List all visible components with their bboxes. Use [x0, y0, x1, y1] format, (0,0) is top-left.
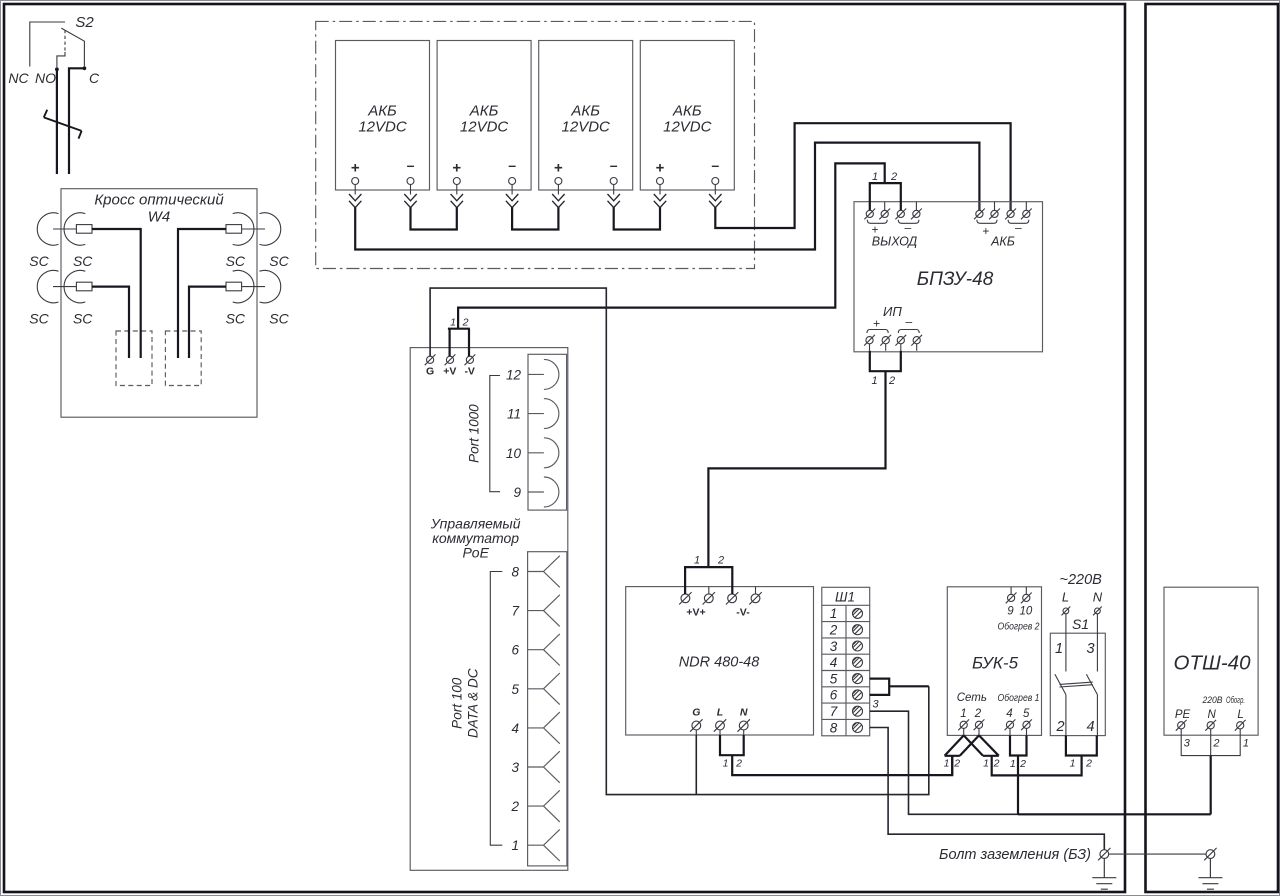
fiber wire rt: [178, 229, 226, 358]
Port 1000 numbers: [506, 367, 522, 500]
PoE switch box: [410, 348, 568, 871]
svg-text:2: 2: [462, 317, 469, 329]
fiber wire lb: [92, 287, 129, 358]
OTSh connector bracket: [1181, 729, 1240, 756]
svg-text:АКБ: АКБ: [990, 235, 1015, 249]
svg-text:10: 10: [506, 446, 522, 461]
SC connector right bottom: [226, 270, 281, 302]
svg-text:S1: S1: [1072, 616, 1089, 632]
battery series link 2-3: [512, 208, 558, 230]
BUK-5 box: [947, 587, 1041, 736]
PoE G +V -V terminals: [425, 354, 436, 365]
svg-text:SC: SC: [269, 311, 289, 327]
svg-text:N: N: [1093, 590, 1103, 605]
svg-text:4: 4: [1006, 708, 1012, 720]
battery enclosure dash-dot box: [316, 21, 755, 268]
SC connector left top: [37, 213, 92, 245]
svg-text:Обогрев 1: Обогрев 1: [998, 692, 1040, 704]
NDR 480-48 box: [626, 587, 814, 735]
ground symbol right: [1198, 858, 1222, 889]
svg-text:2: 2: [717, 555, 724, 567]
batteries АКБ 12VDC: [336, 41, 735, 208]
svg-text:2: 2: [1212, 738, 1219, 750]
svg-text:2: 2: [953, 758, 960, 770]
SC connector right top: [226, 213, 281, 245]
svg-text:10: 10: [1020, 606, 1033, 618]
svg-text:NO: NO: [35, 70, 56, 86]
svg-text:NC: NC: [8, 70, 29, 86]
node C dot: [83, 66, 87, 70]
svg-text:N: N: [1208, 709, 1217, 721]
Port 1000 ports 12-9: [528, 359, 559, 507]
BPZU AKB terminals: [974, 202, 1032, 249]
svg-text:ОТШ-40: ОТШ-40: [1174, 652, 1252, 675]
S1 bottom connector: [1066, 736, 1097, 756]
ground symbol main: [1092, 858, 1116, 889]
svg-text:2: 2: [993, 758, 1000, 770]
Port 1000 sub-box: [528, 354, 567, 510]
earth bolt right cabinet: [1204, 848, 1216, 860]
svg-text:6: 6: [511, 643, 519, 658]
svg-text:6: 6: [830, 688, 838, 703]
svg-text:Болт заземления (БЗ): Болт заземления (БЗ): [939, 847, 1091, 863]
OTSh cable down to heater line: [1210, 756, 1212, 815]
svg-text:2: 2: [974, 708, 982, 720]
svg-text:2: 2: [1019, 758, 1026, 770]
BUK set X-cross connectors: [945, 735, 1082, 775]
PoE G wire to ground bus: [430, 288, 929, 794]
svg-text:5: 5: [830, 671, 838, 686]
svg-text:9: 9: [1007, 606, 1014, 618]
S1 pole contacts: [1055, 614, 1098, 736]
battery wire b1+ to BPZU AKB+: [355, 143, 979, 250]
svg-text:+V+: +V+: [686, 607, 705, 619]
svg-text:+: +: [873, 317, 880, 331]
svg-text:Сеть: Сеть: [957, 692, 987, 704]
svg-text:1: 1: [694, 555, 700, 567]
svg-text:5: 5: [511, 682, 519, 697]
svg-text:БПЗУ-48: БПЗУ-48: [917, 269, 994, 290]
svg-text:2: 2: [1085, 758, 1092, 770]
svg-text:3: 3: [830, 639, 838, 654]
svg-text:–: –: [905, 221, 912, 235]
switch S2 body: [30, 22, 85, 67]
svg-text:3: 3: [1087, 641, 1095, 657]
splice tray right (dashed): [165, 331, 201, 386]
NDR G wire down to ground bus: [695, 735, 697, 795]
svg-text:3: 3: [1184, 738, 1191, 750]
svg-text:5: 5: [1023, 708, 1030, 720]
svg-text:2: 2: [510, 799, 519, 814]
battery series link 3-4: [614, 208, 660, 230]
svg-text:SC: SC: [226, 311, 246, 327]
svg-text:L: L: [1062, 590, 1069, 605]
BPZU VYHOD terminals: [864, 202, 921, 249]
svg-text:C: C: [89, 70, 100, 86]
wire from NO down: [56, 69, 58, 174]
PoE power connector 1,2: [448, 329, 470, 357]
Sh1 rows: [822, 622, 870, 720]
svg-text:W4: W4: [148, 209, 171, 226]
BPZU IP connector 1,2: [708, 351, 900, 568]
bolt link wire: [1109, 853, 1207, 855]
svg-text:1: 1: [960, 708, 966, 720]
svg-text:2: 2: [890, 171, 897, 183]
svg-text:12: 12: [506, 367, 522, 382]
right cabinet frame: [1146, 4, 1279, 892]
Port 100 ports 8-1: [528, 556, 560, 861]
svg-text:Ш1: Ш1: [835, 590, 855, 605]
SC connector left bottom: [37, 270, 92, 302]
svg-text:12VDC: 12VDC: [358, 119, 407, 136]
svg-text:+V: +V: [443, 366, 456, 378]
svg-text:1: 1: [1243, 738, 1249, 750]
SC labels: [29, 253, 289, 327]
svg-text:4: 4: [1087, 719, 1095, 735]
splice tray left (dashed): [116, 331, 152, 386]
svg-text:1: 1: [944, 758, 950, 770]
svg-text:SC: SC: [269, 253, 289, 269]
svg-text:1: 1: [983, 758, 989, 770]
svg-text:ВЫХОД: ВЫХОД: [872, 235, 918, 249]
Port 100 numbers: [510, 565, 519, 854]
svg-text:1: 1: [830, 606, 838, 621]
svg-text:8: 8: [830, 720, 838, 735]
svg-text:4: 4: [830, 655, 838, 670]
svg-text:2: 2: [829, 623, 838, 638]
svg-text:1: 1: [1010, 758, 1016, 770]
earth bolt BZ: [1098, 848, 1110, 860]
svg-text:3: 3: [872, 699, 879, 711]
wire NDR mains to BUK set connector: [732, 755, 952, 775]
fiber wire lt: [92, 229, 141, 358]
svg-text:Обогр.: Обогр.: [1226, 695, 1245, 706]
svg-text:L: L: [717, 707, 723, 719]
svg-text:~220В: ~220В: [1060, 572, 1103, 588]
svg-text:Обогрев 2: Обогрев 2: [998, 621, 1040, 633]
Port 1000 bracket: [490, 376, 500, 492]
wire from C down: [69, 68, 84, 174]
svg-text:S2: S2: [75, 14, 94, 31]
cable mark on S2 wires: [44, 110, 82, 139]
svg-text:+: +: [351, 160, 360, 177]
S1 box: [1050, 633, 1105, 735]
fiber wire rb: [189, 287, 226, 358]
BPZU-48 box: [854, 202, 1043, 352]
svg-text:2: 2: [888, 375, 895, 387]
svg-text:-V: -V: [464, 366, 475, 378]
svg-text:1: 1: [872, 171, 878, 183]
svg-text:1: 1: [723, 758, 729, 770]
svg-text:1: 1: [1070, 758, 1076, 770]
svg-text:7: 7: [830, 704, 838, 719]
svg-text:G: G: [426, 366, 434, 378]
svg-text:SC: SC: [226, 253, 246, 269]
Sh1 row 8 wire to earth bolt: [870, 728, 1105, 850]
svg-text:8: 8: [511, 565, 519, 580]
svg-text:–: –: [906, 315, 913, 329]
svg-text:Port 100: Port 100: [450, 677, 465, 729]
svg-text:ИП: ИП: [883, 304, 902, 319]
svg-text:2: 2: [1056, 719, 1065, 735]
svg-text:АКБ: АКБ: [367, 103, 397, 120]
svg-text:2: 2: [735, 758, 742, 770]
BUK Obogrev2 terminals 9,10: [1011, 587, 1026, 595]
svg-text:220В: 220В: [1202, 695, 1223, 706]
svg-text:DATA & DC: DATA & DC: [466, 668, 481, 738]
svg-text:SC: SC: [29, 253, 49, 269]
svg-text:11: 11: [507, 407, 521, 422]
svg-text:+: +: [982, 224, 989, 238]
Sh1 terminal block: [822, 587, 870, 736]
svg-text:1: 1: [450, 317, 456, 329]
Sh1 wire 3 from row 7 to OTSh cable: [870, 711, 1211, 814]
svg-text:4: 4: [511, 721, 519, 736]
svg-text:9: 9: [513, 485, 521, 500]
BPZU output connector 1,2: [458, 163, 901, 329]
BPZU IP terminals: [864, 304, 922, 351]
svg-text:SC: SC: [29, 311, 49, 327]
Sh1 jumper 5-6 and wire to ground bus: [870, 679, 890, 695]
Port 100 bracket: [490, 572, 502, 846]
svg-text:L: L: [1237, 709, 1243, 721]
svg-text:Кросс оптический: Кросс оптический: [94, 192, 224, 209]
svg-text:Port 1000: Port 1000: [467, 404, 482, 463]
NDR top terminals: [685, 587, 755, 594]
svg-text:1: 1: [511, 838, 519, 853]
svg-text:SC: SC: [73, 311, 93, 327]
svg-text:3: 3: [511, 760, 519, 775]
svg-text:PoE: PoE: [462, 545, 489, 561]
node NO dot: [55, 67, 59, 71]
svg-text:–: –: [407, 157, 415, 173]
svg-text:G: G: [692, 707, 700, 719]
Port 100 sub-box: [528, 552, 567, 866]
svg-text:1: 1: [1055, 641, 1063, 657]
optical cross W4 box: [61, 189, 257, 418]
svg-text:PE: PE: [1175, 709, 1191, 721]
battery wire b4- to BPZU AKB-: [715, 123, 1010, 228]
svg-text:1: 1: [871, 375, 877, 387]
svg-text:N: N: [740, 707, 748, 719]
svg-text:7: 7: [511, 604, 519, 619]
BUK Obogrev1 connector: [1010, 735, 1027, 755]
svg-text:-V-: -V-: [736, 607, 750, 619]
svg-text:SC: SC: [73, 253, 93, 269]
NDR input connector 1,2: [685, 567, 732, 594]
OTSh-40 box: [1164, 587, 1258, 735]
svg-text:БУК-5: БУК-5: [972, 653, 1019, 672]
battery series link 1-2: [411, 208, 457, 230]
heater wire thick overlay: [1018, 813, 1211, 815]
svg-text:NDR 480-48: NDR 480-48: [679, 655, 760, 671]
svg-text:–: –: [1015, 221, 1022, 235]
NDR mains connector 1,2: [720, 735, 744, 755]
